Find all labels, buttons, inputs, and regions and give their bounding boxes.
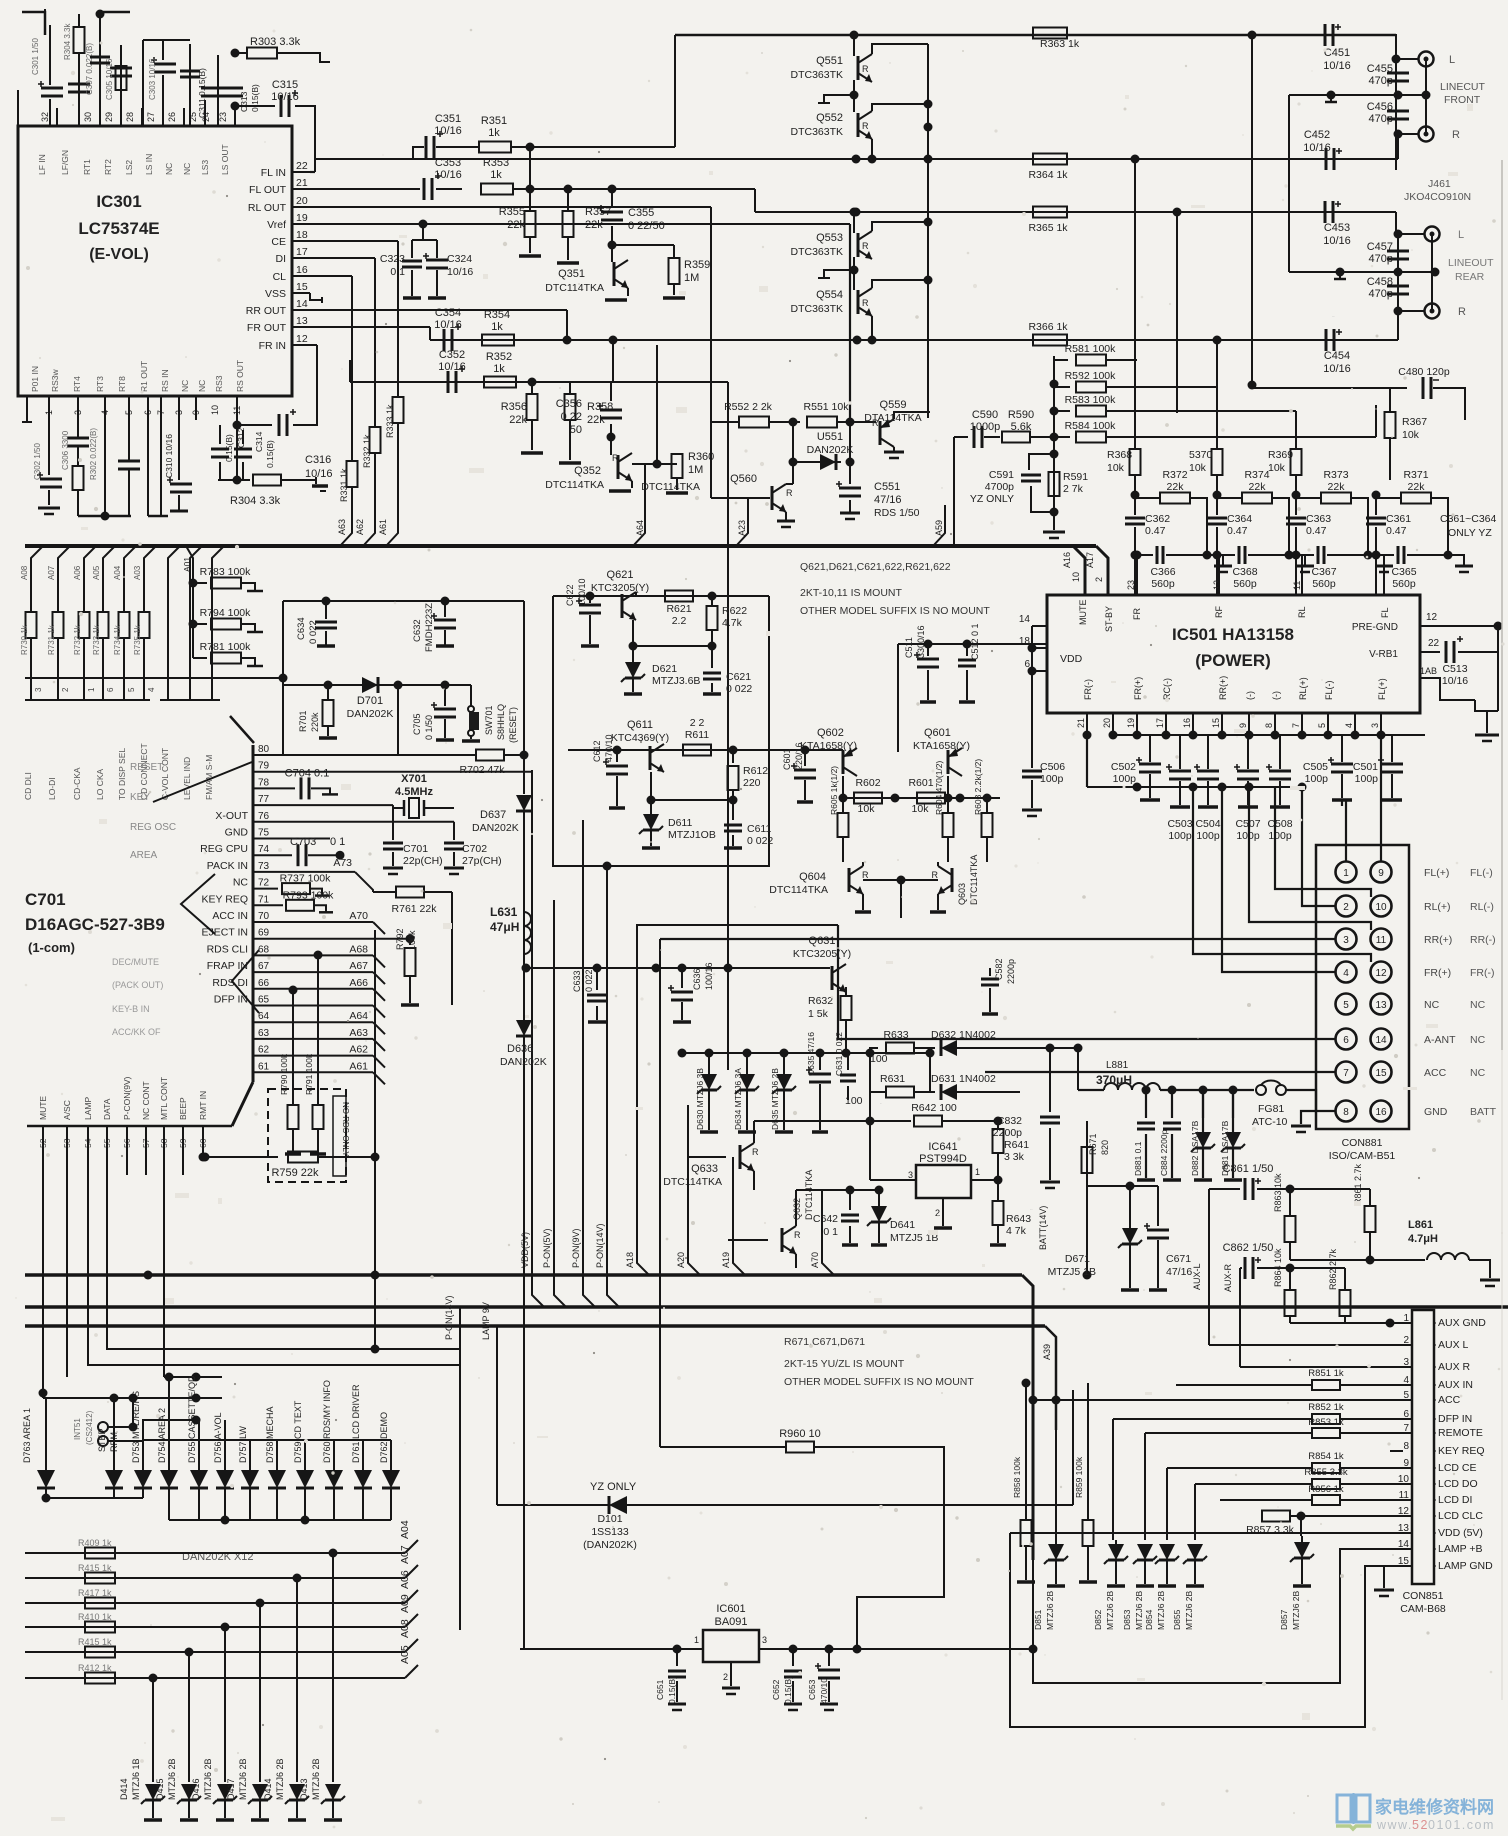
svg-text:MUTE: MUTE bbox=[38, 1096, 48, 1120]
svg-text:47/16: 47/16 bbox=[1166, 1266, 1192, 1278]
svg-text:22k: 22k bbox=[1249, 481, 1267, 493]
svg-text:(-): (-) bbox=[1245, 691, 1255, 700]
svg-text:C634: C634 bbox=[296, 617, 307, 640]
svg-text:72: 72 bbox=[258, 878, 270, 889]
svg-text:RL(-): RL(-) bbox=[1470, 901, 1494, 913]
svg-text:J461: J461 bbox=[1428, 178, 1451, 190]
svg-text:C-VOL CONT: C-VOL CONT bbox=[160, 748, 170, 800]
svg-text:DTC363TK: DTC363TK bbox=[790, 246, 843, 258]
svg-text:A62: A62 bbox=[355, 519, 365, 535]
svg-text:A23: A23 bbox=[737, 520, 747, 536]
svg-text:R415 1k: R415 1k bbox=[78, 1563, 112, 1573]
svg-text:R359: R359 bbox=[684, 259, 710, 271]
svg-text:RT1: RT1 bbox=[82, 159, 92, 175]
svg-text:C512 0 1: C512 0 1 bbox=[970, 623, 980, 660]
svg-text:R863 10k: R863 10k bbox=[1273, 1173, 1283, 1212]
svg-text:10/16: 10/16 bbox=[305, 468, 333, 480]
svg-text:R604 470(1/2): R604 470(1/2) bbox=[934, 760, 944, 815]
svg-text:C633: C633 bbox=[572, 970, 582, 992]
svg-text:560p: 560p bbox=[1312, 578, 1336, 590]
svg-text:D414: D414 bbox=[263, 1778, 273, 1800]
svg-text:C364: C364 bbox=[1227, 513, 1252, 525]
svg-text:62: 62 bbox=[258, 1045, 270, 1056]
svg-text:R363 1k: R363 1k bbox=[1040, 38, 1080, 50]
svg-text:RT3: RT3 bbox=[95, 376, 105, 392]
svg-text:4700p: 4700p bbox=[985, 481, 1014, 493]
svg-text:C861 1/50: C861 1/50 bbox=[1223, 1163, 1274, 1175]
svg-text:D637: D637 bbox=[480, 809, 506, 821]
svg-text:0.47: 0.47 bbox=[1386, 525, 1407, 537]
svg-text:X-OUT: X-OUT bbox=[215, 810, 248, 822]
svg-text:67: 67 bbox=[258, 961, 270, 972]
svg-text:A04: A04 bbox=[113, 565, 122, 580]
svg-text:LO-DI: LO-DI bbox=[47, 777, 57, 800]
svg-text:R643: R643 bbox=[1006, 1213, 1031, 1225]
svg-text:RESET: RESET bbox=[130, 762, 163, 773]
svg-text:10/16: 10/16 bbox=[434, 319, 462, 331]
svg-text:REMOTE: REMOTE bbox=[1438, 1427, 1483, 1439]
svg-text:6: 6 bbox=[106, 687, 115, 692]
svg-text:R303 3.3k: R303 3.3k bbox=[250, 36, 301, 48]
svg-text:0.47: 0.47 bbox=[1227, 525, 1248, 537]
svg-text:VSS: VSS bbox=[265, 288, 286, 300]
svg-text:12: 12 bbox=[1426, 612, 1438, 623]
svg-text:R632: R632 bbox=[808, 995, 833, 1007]
svg-text:0.47: 0.47 bbox=[1306, 525, 1327, 537]
svg-text:LS2: LS2 bbox=[124, 160, 134, 175]
svg-text:10/16: 10/16 bbox=[1303, 142, 1331, 154]
svg-text:Q621: Q621 bbox=[607, 569, 634, 581]
svg-text:28: 28 bbox=[125, 112, 135, 122]
svg-text:L631: L631 bbox=[490, 905, 518, 919]
svg-text:NC: NC bbox=[233, 877, 249, 889]
svg-text:R552 2 2k: R552 2 2k bbox=[724, 401, 773, 413]
svg-text:C451: C451 bbox=[1324, 47, 1350, 59]
svg-text:R759 22k: R759 22k bbox=[271, 1167, 319, 1179]
svg-text:66: 66 bbox=[258, 978, 270, 989]
svg-text:LS3: LS3 bbox=[200, 160, 210, 175]
svg-text:47/16: 47/16 bbox=[874, 494, 902, 506]
svg-text:RT2: RT2 bbox=[103, 159, 113, 175]
svg-text:D634 MTZJ6 3A: D634 MTZJ6 3A bbox=[733, 1068, 743, 1130]
svg-text:22k: 22k bbox=[1408, 481, 1426, 493]
svg-text:R364 1k: R364 1k bbox=[1028, 169, 1068, 181]
svg-text:R732 1k: R732 1k bbox=[73, 624, 82, 655]
svg-text:A18: A18 bbox=[625, 1252, 635, 1268]
svg-text:R734 1k: R734 1k bbox=[113, 624, 122, 655]
svg-text:BEEP: BEEP bbox=[178, 1097, 188, 1120]
svg-text:R781 100k: R781 100k bbox=[200, 641, 252, 653]
svg-text:R304 3.3k: R304 3.3k bbox=[230, 495, 281, 507]
svg-text:17: 17 bbox=[1155, 718, 1165, 728]
svg-text:74: 74 bbox=[258, 844, 270, 855]
svg-text:ST-BY: ST-BY bbox=[1104, 606, 1114, 632]
svg-text:R864 10k: R864 10k bbox=[1273, 1248, 1283, 1287]
svg-text:A39: A39 bbox=[1042, 1344, 1052, 1360]
svg-text:9: 9 bbox=[1238, 723, 1248, 728]
svg-text:R369: R369 bbox=[1268, 449, 1293, 461]
svg-text:NC: NC bbox=[1470, 1067, 1486, 1079]
svg-text:A03: A03 bbox=[133, 565, 142, 580]
svg-text:4.7μH: 4.7μH bbox=[1408, 1233, 1438, 1245]
svg-text:100p: 100p bbox=[1040, 773, 1064, 785]
svg-text:FL(-): FL(-) bbox=[1324, 681, 1334, 701]
svg-text:JKO4CO910N: JKO4CO910N bbox=[1404, 191, 1471, 203]
svg-text:A09: A09 bbox=[399, 1594, 411, 1613]
svg-text:C504: C504 bbox=[1195, 818, 1220, 830]
svg-text:RS IN: RS IN bbox=[160, 369, 170, 392]
svg-text:1: 1 bbox=[1403, 1313, 1409, 1324]
svg-text:100p: 100p bbox=[1113, 773, 1137, 785]
svg-text:R854 1k: R854 1k bbox=[1308, 1451, 1344, 1462]
svg-text:C862 1/50: C862 1/50 bbox=[1223, 1242, 1274, 1254]
svg-text:D417: D417 bbox=[226, 1778, 236, 1800]
svg-text:Q611: Q611 bbox=[627, 719, 653, 731]
svg-text:10: 10 bbox=[1071, 572, 1081, 582]
svg-text:AUX IN: AUX IN bbox=[1438, 1379, 1473, 1391]
svg-text:MTZJ6 2B: MTZJ6 2B bbox=[311, 1758, 321, 1800]
svg-text:CE: CE bbox=[271, 236, 286, 248]
svg-text:A68: A68 bbox=[349, 943, 368, 955]
svg-text:Q554: Q554 bbox=[816, 289, 843, 301]
svg-text:A70: A70 bbox=[349, 910, 368, 922]
svg-text:R783 100k: R783 100k bbox=[200, 566, 252, 578]
svg-text:Q631: Q631 bbox=[809, 935, 836, 947]
svg-text:D756 A-VOL: D756 A-VOL bbox=[213, 1412, 223, 1463]
svg-text:2200p: 2200p bbox=[1006, 959, 1016, 984]
svg-text:DATA: DATA bbox=[102, 1098, 112, 1120]
svg-text:R702 47k: R702 47k bbox=[460, 764, 506, 776]
svg-text:14: 14 bbox=[1019, 614, 1031, 625]
svg-text:C601: C601 bbox=[782, 748, 792, 770]
svg-text:0.15(B): 0.15(B) bbox=[250, 84, 260, 112]
svg-text:RL OUT: RL OUT bbox=[248, 202, 287, 214]
svg-text:IC501 HA13158: IC501 HA13158 bbox=[1172, 625, 1294, 644]
svg-text:10/16: 10/16 bbox=[447, 266, 473, 278]
svg-text:R735 1k: R735 1k bbox=[133, 624, 142, 655]
svg-text:A63: A63 bbox=[337, 519, 347, 535]
svg-text:DAN202K: DAN202K bbox=[347, 708, 394, 720]
svg-text:CAM-B68: CAM-B68 bbox=[1400, 1603, 1446, 1615]
svg-text:R: R bbox=[1458, 306, 1466, 318]
svg-text:0 22: 0 22 bbox=[561, 411, 582, 423]
svg-text:U551: U551 bbox=[817, 431, 843, 443]
svg-text:12: 12 bbox=[296, 333, 308, 345]
svg-text:A05: A05 bbox=[399, 1645, 411, 1664]
svg-text:DTC114TKA: DTC114TKA bbox=[769, 884, 828, 896]
svg-text:(CS2412): (CS2412) bbox=[85, 1410, 94, 1445]
svg-text:C458: C458 bbox=[1367, 276, 1393, 288]
svg-text:PST994D: PST994D bbox=[919, 1153, 967, 1165]
svg-text:FL IN: FL IN bbox=[261, 167, 286, 179]
svg-text:C502: C502 bbox=[1111, 761, 1136, 773]
svg-text:NC: NC bbox=[180, 380, 190, 392]
svg-text:MTZJ6 2B: MTZJ6 2B bbox=[1134, 1590, 1144, 1630]
svg-text:22: 22 bbox=[1428, 638, 1440, 649]
svg-text:C363: C363 bbox=[1306, 513, 1331, 525]
svg-text:10/16: 10/16 bbox=[1323, 363, 1351, 375]
svg-text:1M: 1M bbox=[688, 464, 703, 476]
svg-text:C316: C316 bbox=[305, 454, 331, 466]
svg-text:MTZJ1OB: MTZJ1OB bbox=[668, 829, 716, 841]
svg-text:100p: 100p bbox=[1196, 830, 1220, 842]
svg-text:R852 1k: R852 1k bbox=[1308, 1402, 1344, 1413]
svg-text:R603 2.2k(1/2): R603 2.2k(1/2) bbox=[973, 759, 983, 815]
svg-text:C307 0.022(B): C307 0.022(B) bbox=[85, 43, 94, 95]
svg-text:R417 1k: R417 1k bbox=[78, 1588, 112, 1598]
svg-text:C631 0 022: C631 0 022 bbox=[834, 1032, 844, 1076]
svg-text:FR: FR bbox=[1132, 608, 1142, 620]
svg-text:70: 70 bbox=[258, 911, 270, 922]
svg-text:A67: A67 bbox=[349, 960, 368, 972]
svg-text:MTZJ6 2B: MTZJ6 2B bbox=[167, 1758, 177, 1800]
svg-text:820: 820 bbox=[1100, 1140, 1110, 1155]
svg-text:15: 15 bbox=[1375, 1068, 1387, 1079]
svg-text:0 022: 0 022 bbox=[747, 835, 773, 847]
svg-text:1 5k: 1 5k bbox=[808, 1008, 829, 1020]
svg-text:R633: R633 bbox=[883, 1029, 908, 1041]
svg-text:C653: C653 bbox=[807, 1679, 817, 1700]
svg-text:C456: C456 bbox=[1367, 101, 1393, 113]
svg-text:C351: C351 bbox=[435, 113, 461, 125]
svg-text:100: 100 bbox=[870, 1053, 888, 1065]
svg-text:R374: R374 bbox=[1244, 469, 1269, 481]
svg-text:470p: 470p bbox=[1369, 253, 1393, 265]
svg-text:FR(-): FR(-) bbox=[1083, 679, 1093, 700]
svg-text:P-ON(5V): P-ON(5V) bbox=[542, 1228, 552, 1268]
svg-text:0 1: 0 1 bbox=[330, 836, 345, 848]
svg-text:8: 8 bbox=[1403, 1441, 1409, 1452]
svg-text:R: R bbox=[752, 1147, 759, 1157]
svg-text:LO CKA: LO CKA bbox=[95, 768, 105, 800]
svg-text:30: 30 bbox=[83, 112, 93, 122]
svg-text:R611: R611 bbox=[685, 729, 709, 741]
svg-text:R352: R352 bbox=[486, 351, 512, 363]
svg-text:DTC114TKA: DTC114TKA bbox=[641, 481, 700, 493]
svg-text:D881 0.1: D881 0.1 bbox=[1133, 1141, 1143, 1176]
svg-text:MTZJ6 2B: MTZJ6 2B bbox=[238, 1758, 248, 1800]
svg-text:LCD DO: LCD DO bbox=[1438, 1478, 1478, 1490]
svg-text:C306 3300: C306 3300 bbox=[61, 430, 70, 470]
svg-text:NC: NC bbox=[197, 380, 207, 392]
svg-text:10/16: 10/16 bbox=[438, 361, 466, 373]
svg-text:13: 13 bbox=[296, 315, 308, 327]
svg-text:D759 CD TEXT: D759 CD TEXT bbox=[293, 1400, 303, 1463]
svg-text:RL(+): RL(+) bbox=[1298, 677, 1308, 700]
svg-text:R: R bbox=[932, 870, 939, 880]
svg-text:C354: C354 bbox=[435, 307, 461, 319]
svg-text:10k: 10k bbox=[1107, 462, 1125, 474]
svg-text:KEY: KEY bbox=[130, 792, 150, 803]
svg-text:22k: 22k bbox=[1328, 481, 1346, 493]
svg-text:10: 10 bbox=[210, 405, 220, 415]
svg-text:CON851: CON851 bbox=[1403, 1590, 1444, 1602]
svg-text:C453: C453 bbox=[1324, 222, 1350, 234]
svg-text:R: R bbox=[862, 241, 869, 251]
svg-text:A64: A64 bbox=[635, 520, 645, 536]
svg-text:15: 15 bbox=[296, 281, 308, 293]
svg-text:FL: FL bbox=[1380, 607, 1390, 618]
svg-text:3: 3 bbox=[34, 687, 43, 692]
svg-text:5.6k: 5.6k bbox=[1011, 421, 1032, 433]
svg-text:D853: D853 bbox=[1122, 1609, 1132, 1630]
svg-text:C622: C622 bbox=[565, 584, 575, 606]
svg-text:3 3k: 3 3k bbox=[1004, 1151, 1025, 1163]
svg-text:MUTE: MUTE bbox=[1078, 600, 1088, 626]
svg-text:R302 0.022(B): R302 0.022(B) bbox=[89, 428, 98, 480]
svg-text:10: 10 bbox=[1375, 902, 1387, 913]
svg-text:69: 69 bbox=[258, 928, 270, 939]
svg-text:79: 79 bbox=[258, 761, 270, 772]
svg-text:19: 19 bbox=[296, 212, 308, 224]
svg-text:R: R bbox=[862, 64, 869, 74]
svg-text:R: R bbox=[862, 121, 869, 131]
svg-text:NC: NC bbox=[1470, 999, 1486, 1011]
svg-text:18: 18 bbox=[296, 229, 308, 241]
svg-text:1AB: 1AB bbox=[1420, 666, 1437, 676]
svg-text:C513: C513 bbox=[1442, 663, 1467, 675]
svg-text:R791 100k: R791 100k bbox=[304, 1053, 314, 1095]
svg-text:R960 10: R960 10 bbox=[779, 1428, 821, 1440]
svg-text:LS IN: LS IN bbox=[144, 154, 154, 175]
svg-text:470/10: 470/10 bbox=[819, 1678, 829, 1704]
svg-text:22k: 22k bbox=[587, 414, 605, 426]
svg-text:C884 2200p: C884 2200p bbox=[1159, 1129, 1169, 1176]
svg-text:R372: R372 bbox=[1162, 469, 1187, 481]
svg-text:4.7k: 4.7k bbox=[722, 617, 743, 629]
svg-text:R733 1k: R733 1k bbox=[92, 624, 101, 655]
svg-text:D762 DEMO: D762 DEMO bbox=[379, 1412, 389, 1463]
svg-text:1: 1 bbox=[975, 1167, 980, 1177]
svg-text:100p: 100p bbox=[1268, 830, 1292, 842]
svg-text:220: 220 bbox=[743, 777, 761, 789]
svg-text:7: 7 bbox=[1343, 1068, 1349, 1079]
svg-text:R641: R641 bbox=[1004, 1139, 1029, 1151]
svg-text:OTHER MODEL SUFFIX IS NO MOUNT: OTHER MODEL SUFFIX IS NO MOUNT bbox=[784, 1376, 974, 1388]
svg-text:C368: C368 bbox=[1232, 566, 1257, 578]
svg-text:TO DISP SEL: TO DISP SEL bbox=[117, 748, 127, 800]
svg-text:R701: R701 bbox=[298, 710, 308, 732]
svg-text:19: 19 bbox=[1126, 718, 1136, 728]
svg-text:C511: C511 bbox=[904, 637, 914, 658]
svg-text:0.15(B): 0.15(B) bbox=[783, 1676, 793, 1704]
svg-text:REG CPU: REG CPU bbox=[200, 843, 248, 855]
svg-text:CD DLI: CD DLI bbox=[23, 772, 33, 800]
svg-text:C312: C312 bbox=[236, 427, 246, 448]
svg-text:A20: A20 bbox=[676, 1252, 686, 1268]
svg-text:R409 1k: R409 1k bbox=[78, 1538, 112, 1548]
svg-text:R410 1k: R410 1k bbox=[78, 1612, 112, 1622]
svg-text:C356: C356 bbox=[556, 398, 582, 410]
svg-text:R332 1k: R332 1k bbox=[362, 434, 372, 468]
svg-text:560p: 560p bbox=[1233, 578, 1257, 590]
svg-text:R373: R373 bbox=[1323, 469, 1348, 481]
svg-text:R853 1k: R853 1k bbox=[1308, 1417, 1344, 1428]
svg-text:R356: R356 bbox=[501, 401, 527, 413]
svg-text:0 022: 0 022 bbox=[726, 683, 752, 695]
svg-text:C311 0.15(B): C311 0.15(B) bbox=[197, 68, 207, 118]
svg-text:68: 68 bbox=[258, 944, 270, 955]
svg-text:Q602: Q602 bbox=[817, 727, 844, 739]
svg-text:D701: D701 bbox=[357, 695, 383, 707]
svg-text:10/16: 10/16 bbox=[1323, 60, 1351, 72]
svg-text:ISO/CAM-B51: ISO/CAM-B51 bbox=[1329, 1150, 1396, 1162]
svg-text:5: 5 bbox=[127, 687, 136, 692]
svg-text:R412 1k: R412 1k bbox=[78, 1663, 112, 1673]
svg-text:3: 3 bbox=[908, 1170, 913, 1180]
svg-text:C323: C323 bbox=[380, 253, 405, 265]
svg-text:MTZJ6 2B: MTZJ6 2B bbox=[203, 1758, 213, 1800]
svg-text:(DAN202K): (DAN202K) bbox=[583, 1539, 637, 1551]
svg-text:10k: 10k bbox=[1268, 462, 1286, 474]
svg-text:R731 1k: R731 1k bbox=[47, 624, 56, 655]
svg-text:MTZJ6 1B: MTZJ6 1B bbox=[131, 1758, 141, 1800]
svg-text:RL: RL bbox=[1297, 606, 1307, 618]
svg-text:LINECUT: LINECUT bbox=[1440, 81, 1486, 93]
svg-text:C652: C652 bbox=[771, 1679, 781, 1700]
svg-text:P01 IN: P01 IN bbox=[30, 366, 40, 392]
svg-text:FL OUT: FL OUT bbox=[249, 184, 287, 196]
svg-text:YZ ONLY: YZ ONLY bbox=[590, 1481, 637, 1493]
svg-text:D611: D611 bbox=[668, 817, 692, 829]
svg-text:R621: R621 bbox=[666, 603, 691, 615]
svg-text:1k: 1k bbox=[488, 127, 500, 139]
svg-text:RDS 1/50: RDS 1/50 bbox=[874, 507, 920, 519]
svg-text:A59: A59 bbox=[934, 520, 944, 536]
svg-text:220k: 220k bbox=[310, 712, 320, 732]
svg-text:RT8: RT8 bbox=[117, 376, 127, 392]
svg-text:D632 1N4002: D632 1N4002 bbox=[931, 1029, 996, 1041]
svg-text:C701: C701 bbox=[25, 890, 66, 909]
svg-text:D855: D855 bbox=[1172, 1609, 1182, 1630]
svg-text:R591: R591 bbox=[1063, 471, 1088, 483]
svg-text:29: 29 bbox=[104, 112, 114, 122]
svg-text:5: 5 bbox=[1317, 723, 1327, 728]
svg-text:26: 26 bbox=[167, 112, 177, 122]
svg-text:2 7k: 2 7k bbox=[1063, 483, 1084, 495]
svg-text:P-CON(9V): P-CON(9V) bbox=[122, 1076, 132, 1120]
svg-text:C454: C454 bbox=[1324, 350, 1350, 362]
svg-text:17: 17 bbox=[296, 246, 308, 258]
svg-text:4.5MHz: 4.5MHz bbox=[395, 786, 433, 798]
svg-text:LAMP: LAMP bbox=[83, 1097, 93, 1120]
svg-text:A06: A06 bbox=[399, 1570, 411, 1589]
svg-text:BA091: BA091 bbox=[714, 1616, 747, 1628]
svg-text:2: 2 bbox=[1343, 902, 1349, 913]
svg-text:D641: D641 bbox=[890, 1219, 915, 1231]
svg-text:D631 1N4002: D631 1N4002 bbox=[931, 1073, 996, 1085]
svg-text:R365 1k: R365 1k bbox=[1028, 222, 1068, 234]
svg-text:FRONT: FRONT bbox=[1444, 94, 1481, 106]
svg-text:4 7k: 4 7k bbox=[1006, 1225, 1027, 1237]
svg-text:R642 100: R642 100 bbox=[911, 1102, 957, 1114]
svg-text:RS3: RS3 bbox=[214, 375, 224, 392]
svg-text:R582 100k: R582 100k bbox=[1065, 370, 1117, 382]
svg-text:KTC3205(Y): KTC3205(Y) bbox=[591, 582, 649, 594]
svg-text:Q553: Q553 bbox=[816, 232, 843, 244]
svg-text:C582: C582 bbox=[994, 958, 1004, 980]
svg-text:A63: A63 bbox=[349, 1027, 368, 1039]
svg-text:LEVEL IND: LEVEL IND bbox=[182, 757, 192, 800]
svg-text:Q560: Q560 bbox=[730, 473, 757, 485]
svg-text:FL(+): FL(+) bbox=[1377, 678, 1387, 700]
svg-text:D416: D416 bbox=[191, 1778, 201, 1800]
svg-text:DTC114TKA: DTC114TKA bbox=[545, 479, 604, 491]
svg-text:C506: C506 bbox=[1040, 761, 1065, 773]
svg-text:NC: NC bbox=[1424, 999, 1440, 1011]
svg-text:A06: A06 bbox=[73, 565, 82, 580]
svg-text:www.: www. bbox=[1376, 1818, 1413, 1832]
